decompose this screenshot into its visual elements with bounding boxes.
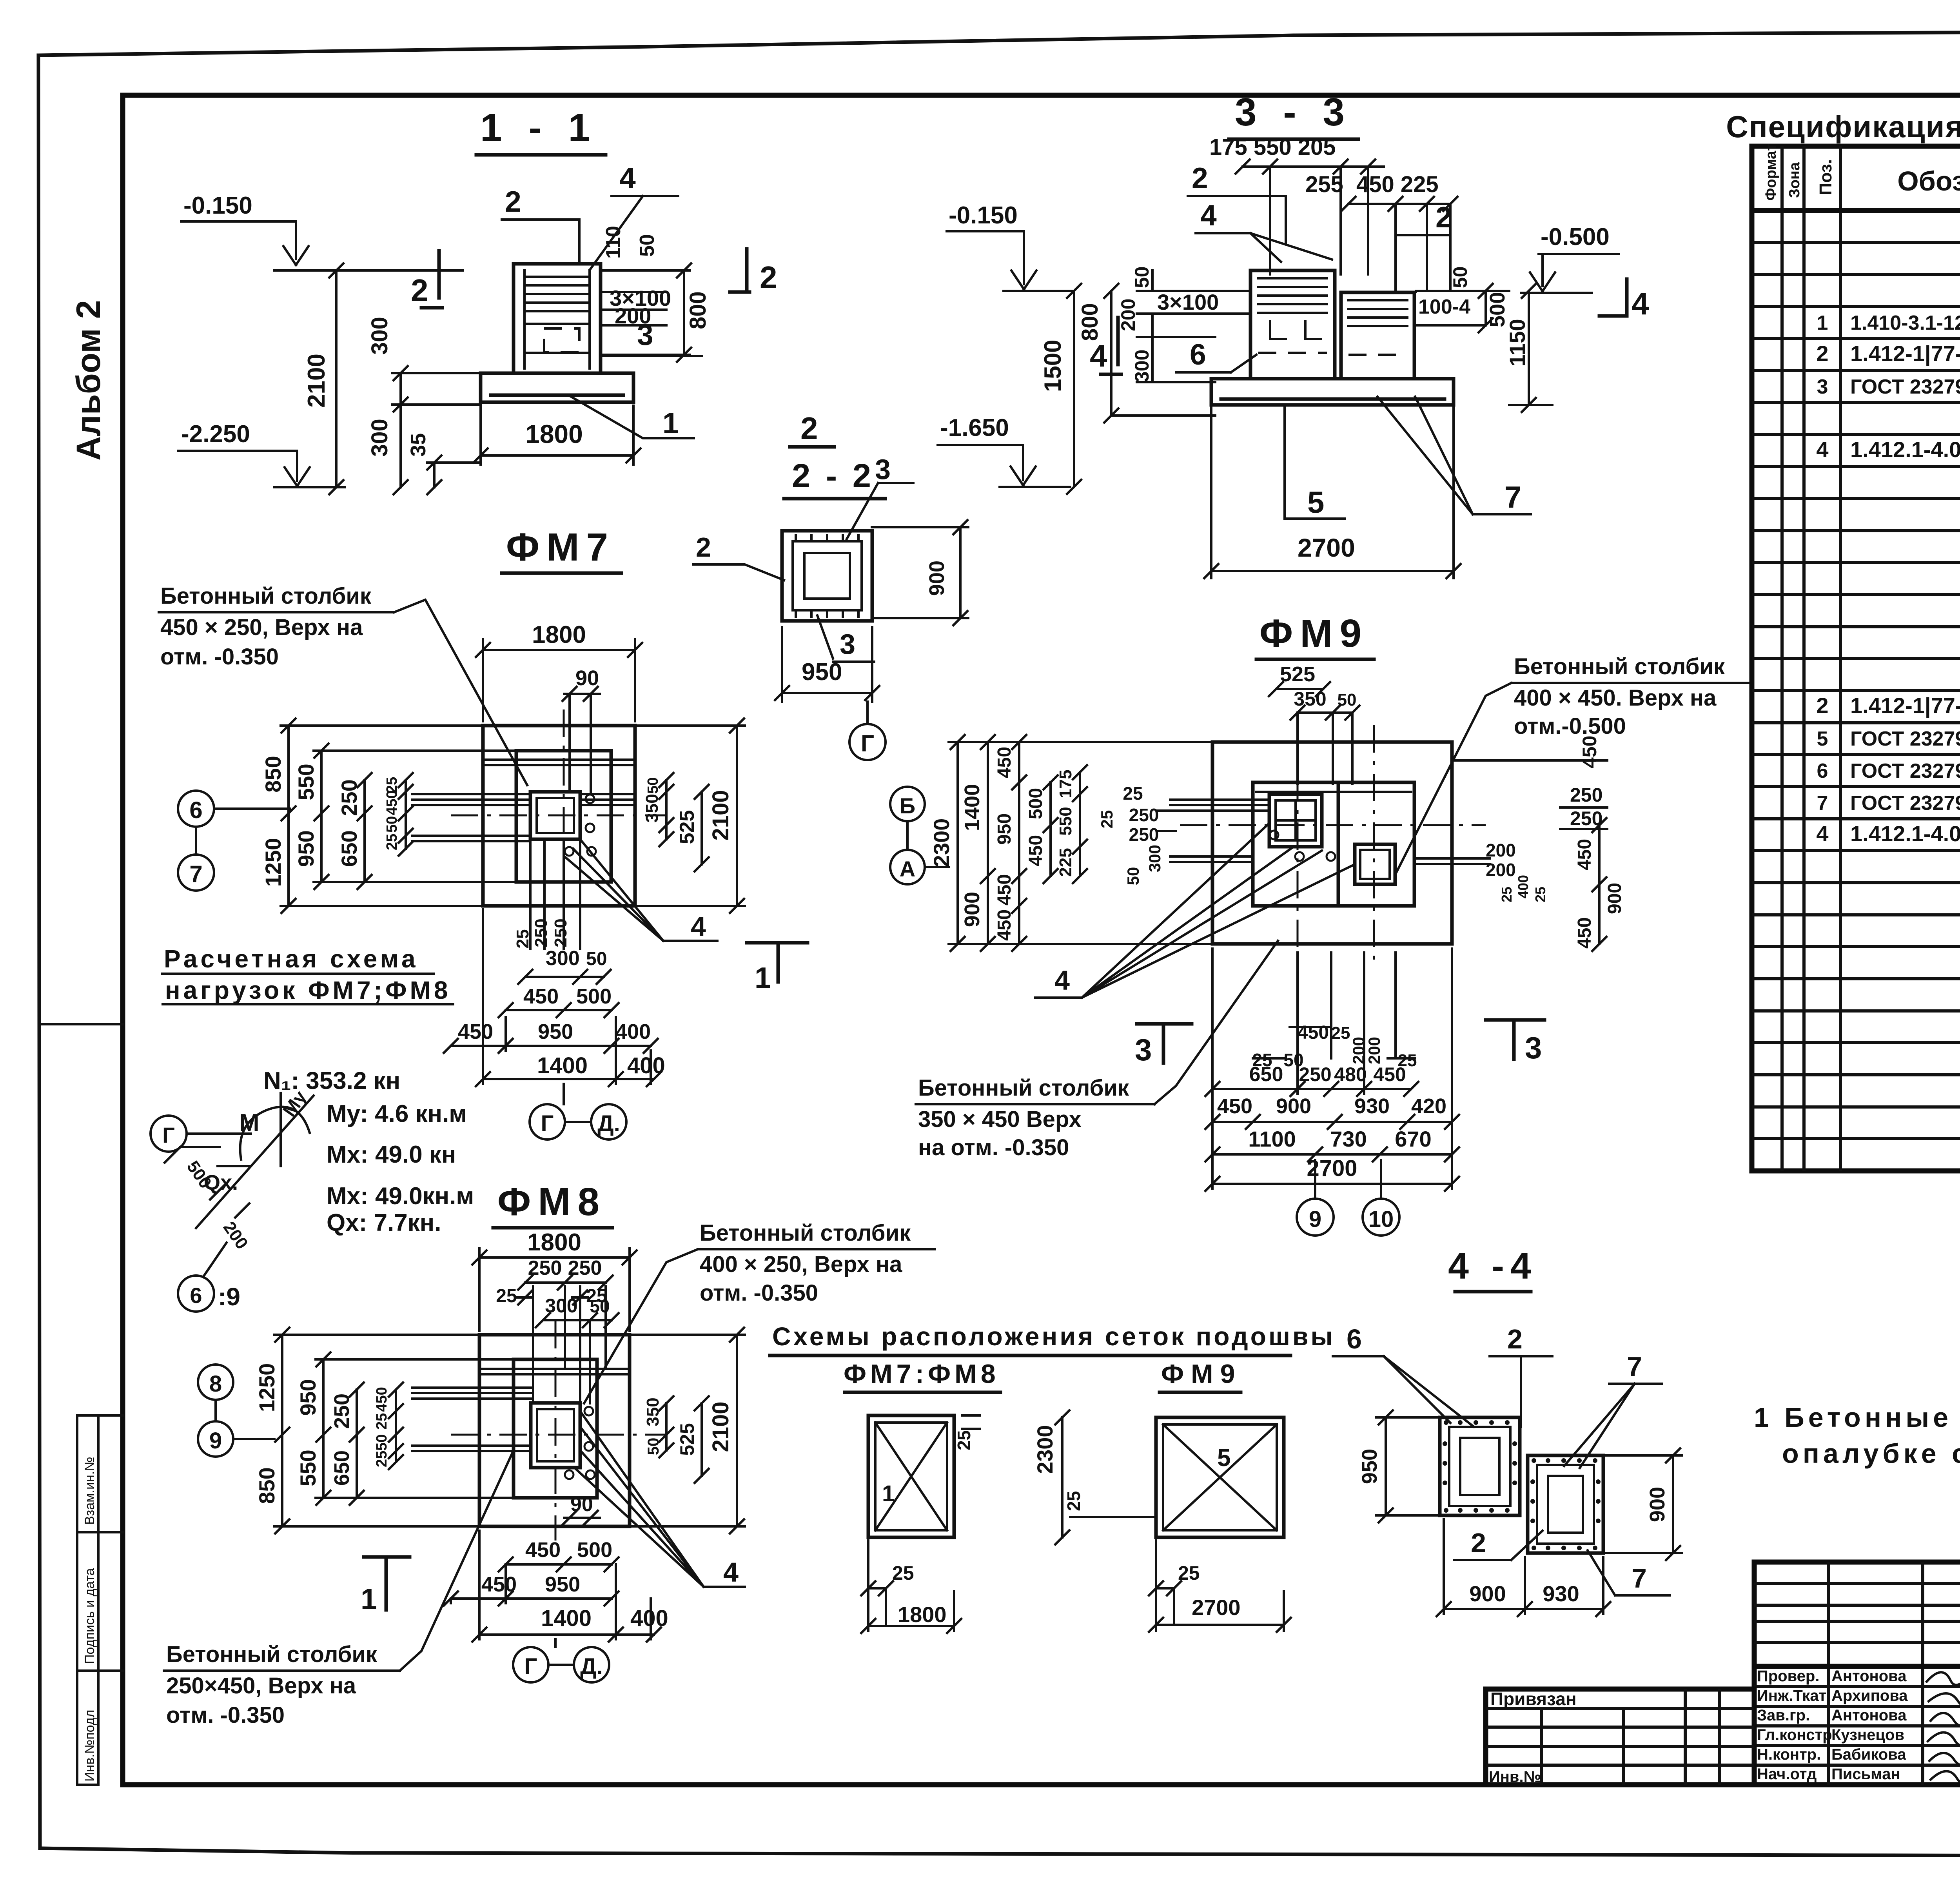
svg-text:1: 1 (361, 1582, 377, 1615)
svg-text:Провер.: Провер. (1757, 1668, 1819, 1685)
svg-text:175 550 205: 175 550 205 (1209, 134, 1336, 160)
svg-text:2 - 2: 2 - 2 (792, 457, 874, 495)
svg-text:525: 525 (676, 1423, 698, 1455)
svg-text:Антонова: Антонова (1831, 1668, 1907, 1685)
svg-text:50: 50 (586, 949, 607, 969)
svg-text:550: 550 (296, 1450, 320, 1486)
svg-text:2300: 2300 (1033, 1425, 1057, 1474)
svg-text:950: 950 (294, 830, 318, 867)
FM9 left dim 450 950 450 450 (994, 735, 1026, 951)
FM7 bottom small dims 25 250 250 25 (513, 839, 580, 949)
section 1-1 label 2 leader (502, 185, 579, 263)
FM9 plan outline (1212, 742, 1452, 944)
section 4-4 right pier (1528, 1455, 1603, 1553)
load scheme axis circle G (151, 1116, 251, 1152)
FM9 bottom dim 450 900 930 420 (1205, 1094, 1459, 1129)
FM9 axis circle 10 (1363, 1160, 1399, 1236)
FM9 bottom dim 650 250 480 450 (1205, 1063, 1418, 1096)
load scheme heading (162, 945, 453, 1004)
svg-text:Гл.констр: Гл.констр (1757, 1726, 1832, 1744)
svg-text:2: 2 (1192, 161, 1208, 194)
svg-text:Зав.гр.: Зав.гр. (1757, 1707, 1810, 1724)
svg-text:1.412.1-4.060: 1.412.1-4.060 (1850, 437, 1960, 462)
svg-text:450: 450 (458, 1020, 493, 1043)
svg-text:отм. -0.350: отм. -0.350 (166, 1702, 285, 1728)
svg-text:50: 50 (636, 234, 659, 257)
svg-text:ГОСТ 23279-85: ГОСТ 23279-85 (1850, 760, 1960, 782)
svg-text:-2.250: -2.250 (181, 421, 250, 448)
svg-text:4: 4 (619, 161, 636, 194)
section 4-4 bottom dim 900 930 (1437, 1519, 1610, 1616)
svg-text:2: 2 (760, 260, 777, 295)
svg-text:950: 950 (802, 659, 842, 686)
spec table rows (1816, 213, 1960, 942)
mesh layout subtitle FM7 FM8 (844, 1359, 1000, 1392)
svg-text:1.410-3.1-12: 1.410-3.1-12 (1850, 312, 1960, 334)
FM7 centre axis horizontal (451, 815, 666, 817)
svg-text:Схемы расположения сеток подош: Схемы расположения сеток подошвы (772, 1322, 1335, 1351)
svg-text:1800: 1800 (532, 621, 586, 648)
svg-text:Qх: 7.7кн.: Qх: 7.7кн. (327, 1209, 441, 1236)
svg-text:Расчетная схема: Расчетная схема (164, 945, 419, 973)
svg-text:1400: 1400 (537, 1053, 588, 1078)
svg-text:25: 25 (954, 1430, 974, 1450)
svg-text:Инж.Ткат: Инж.Ткат (1757, 1687, 1826, 1704)
svg-text:400: 400 (615, 1020, 651, 1043)
svg-text:4: 4 (1632, 286, 1649, 321)
svg-text:4: 4 (723, 1557, 739, 1588)
svg-text:Письман: Письман (1831, 1766, 1900, 1783)
FM7 top dim 1800 (476, 621, 642, 721)
svg-text:Обозначение: Обозначение (1897, 166, 1960, 196)
section 3-3 label 6 leader (1176, 338, 1256, 372)
svg-text:9: 9 (209, 1428, 222, 1453)
svg-text:6: 6 (190, 1283, 202, 1308)
section 1-1 level -2.250 (178, 421, 345, 487)
svg-text:на отм. -0.350: на отм. -0.350 (918, 1135, 1069, 1160)
FM7 centre axis vertical (563, 709, 565, 921)
svg-text:ФМ9: ФМ9 (1259, 611, 1368, 655)
svg-text:50: 50 (374, 1434, 390, 1451)
FM7 mesh bars right (580, 794, 635, 805)
FM8 mesh bars left (412, 1388, 531, 1451)
svg-text:25: 25 (374, 1451, 390, 1467)
svg-text:225: 225 (1056, 848, 1075, 876)
section 3-3 label 2 right leader (1396, 201, 1452, 290)
svg-text:800: 800 (1077, 303, 1103, 341)
mesh scheme 1 rect (868, 1415, 954, 1537)
svg-text:900: 900 (960, 892, 984, 927)
svg-text:250: 250 (1129, 824, 1159, 845)
svg-text:25: 25 (374, 1413, 390, 1430)
svg-text:Бетонный столбик: Бетонный столбик (160, 583, 372, 609)
FM8 axis circle 8 (198, 1365, 233, 1400)
svg-text:250: 250 (1129, 805, 1159, 825)
svg-text:6: 6 (189, 797, 202, 823)
svg-text:650: 650 (1249, 1063, 1283, 1086)
FM9 note betonny stolbik 400x450 (1396, 654, 1749, 874)
section 1-1 level -0.150 (181, 192, 463, 270)
svg-text:Г: Г (524, 1654, 537, 1679)
svg-text:950: 950 (296, 1379, 320, 1415)
svg-text:Бетонный столбик: Бетонный столбик (1514, 654, 1725, 679)
svg-text:1: 1 (1817, 312, 1828, 334)
FM7 left dim 550 950 (294, 744, 516, 889)
svg-text:7: 7 (1817, 792, 1828, 815)
section 3-3 level -0.500 (1521, 223, 1619, 293)
section 4-4 dim 950 (1358, 1410, 1440, 1522)
svg-text:Му: 4.6 кн.м: Му: 4.6 кн.м (327, 1100, 467, 1127)
svg-text:550: 550 (1056, 807, 1075, 835)
privyazan block (1486, 1689, 1754, 1785)
svg-text:1: 1 (882, 1481, 895, 1506)
FM9 left small dims 25 250 250 300 50 (1098, 783, 1176, 885)
svg-text:-0.150: -0.150 (949, 202, 1018, 229)
svg-text:7: 7 (1627, 1351, 1642, 1382)
FM7 pedestal top bars (485, 760, 633, 765)
svg-text:Спецификация элементов монолит: Спецификация элементов монолитной констр… (1726, 109, 1960, 144)
svg-text:Г: Г (541, 1111, 554, 1136)
FM7 left dim 250 650 (337, 773, 372, 889)
FM8 pedestal outline (514, 1359, 597, 1498)
section 3-3 level -0.150 (947, 202, 1074, 291)
svg-text:1800: 1800 (898, 1602, 947, 1627)
section 3-3 bottom dim 2700 (1204, 408, 1461, 578)
svg-text:1400: 1400 (541, 1606, 592, 1631)
FM7 left small dims 25 450 50 25 (384, 773, 413, 856)
svg-text:525: 525 (1280, 662, 1315, 686)
FM8 centre axes (451, 1321, 666, 1541)
FM8 leader 4 (574, 1411, 745, 1588)
svg-text:250: 250 (1570, 784, 1602, 806)
svg-text:Н.контр.: Н.контр. (1757, 1746, 1821, 1763)
FM7 right dim 525 (676, 785, 709, 871)
svg-text:Взам.ин.№: Взам.ин.№ (82, 1457, 97, 1525)
svg-text:Б: Б (900, 793, 915, 818)
svg-text:930: 930 (1354, 1094, 1390, 1118)
svg-text:950: 950 (538, 1020, 573, 1043)
svg-text:175: 175 (1056, 769, 1075, 798)
FM7 bottom dim 1400 400 (476, 909, 665, 1086)
svg-text:300: 300 (1145, 845, 1164, 872)
svg-text:1 Бетонные столбики выполняю: 1 Бетонные столбики выполняются в одной (1754, 1402, 1960, 1433)
svg-text:3: 3 (875, 454, 891, 485)
section 1-1 label 4 leader (590, 161, 678, 270)
mesh scheme 2 dims (1033, 1410, 1291, 1632)
FM7 anchor bolt dots (565, 795, 596, 856)
svg-text:1500: 1500 (1040, 340, 1066, 392)
svg-text:1100: 1100 (1248, 1127, 1296, 1151)
FM8 anchor plate (531, 1403, 580, 1468)
svg-text:50: 50 (645, 1438, 662, 1455)
svg-text:ФМ7:ФМ8: ФМ7:ФМ8 (844, 1359, 1000, 1389)
FM8 pedestal top bars (481, 1369, 628, 1374)
svg-text:ГОСТ 23279-85: ГОСТ 23279-85 (1850, 792, 1960, 815)
svg-text:900: 900 (1646, 1487, 1669, 1522)
svg-text:550: 550 (294, 764, 318, 800)
svg-text:500: 500 (577, 1538, 612, 1562)
svg-text:M: M (239, 1109, 260, 1136)
svg-text:850: 850 (261, 756, 285, 792)
svg-text:Инв.№подл: Инв.№подл (82, 1710, 97, 1782)
svg-text:4: 4 (1090, 338, 1107, 373)
FM8 anchor bolt dots (565, 1407, 595, 1479)
section 4-4 label 2 top leader (1490, 1324, 1552, 1427)
svg-text:25: 25 (892, 1562, 914, 1584)
section 4-4 label 6 leader (1333, 1324, 1474, 1427)
svg-text:1250: 1250 (261, 838, 285, 887)
FM8 left small dims 450 25 50 25 (374, 1383, 403, 1469)
section 3-3 top dims 255 450 225 (1305, 172, 1457, 290)
svg-text:1.412-1|77-В.3-020: 1.412-1|77-В.3-020 (1850, 693, 1960, 718)
svg-text:25: 25 (1532, 887, 1548, 902)
svg-text:350: 350 (642, 794, 662, 822)
svg-text:1250: 1250 (254, 1363, 279, 1412)
FM8 plan outline (479, 1335, 630, 1526)
svg-text:Альбом 2: Альбом 2 (70, 300, 107, 461)
svg-text:Бетонный столбик: Бетонный столбик (918, 1075, 1129, 1101)
FM8 right dim 2100 (630, 1328, 745, 1533)
svg-text:4: 4 (1200, 199, 1217, 232)
svg-text:2: 2 (411, 273, 428, 308)
FM9 mesh bars right (1414, 858, 1490, 864)
svg-text:2700: 2700 (1298, 533, 1355, 562)
svg-text:500: 500 (1025, 788, 1046, 819)
svg-text:25: 25 (513, 929, 532, 949)
svg-text:50: 50 (384, 816, 400, 833)
section 1-1 rebar leader 1 (568, 395, 694, 439)
svg-text:450: 450 (994, 747, 1015, 778)
svg-text:2700: 2700 (1192, 1595, 1241, 1620)
plan 2-2 axis circle G (849, 702, 886, 760)
svg-text:900: 900 (1276, 1094, 1311, 1118)
section 1-1 right dim stack 110 50 3x100 200 800 (602, 226, 711, 362)
FM7 axis circle 7 (178, 827, 214, 891)
plan 2-2 label 2 leader (693, 532, 784, 580)
title block signature labels (1757, 1668, 1908, 1783)
FM7 leader 4 (564, 839, 717, 942)
FM9 pedestal outline (1253, 782, 1414, 906)
section 3-3 footing (1211, 379, 1454, 405)
svg-text:4 -4: 4 -4 (1448, 1245, 1537, 1287)
svg-text::9: :9 (218, 1283, 240, 1311)
svg-text:2100: 2100 (303, 354, 330, 408)
svg-text:25: 25 (496, 1286, 517, 1306)
svg-text:Архипова: Архипова (1831, 1687, 1908, 1704)
svg-text:опалубке с фундаментами.: опалубке с фундаментами. (1782, 1438, 1960, 1469)
section 3-3 dim 800 (1077, 284, 1215, 423)
FM9 right dims 200 200 25 400 25 (1486, 840, 1548, 902)
FM9 top dim 350 50 (1290, 688, 1359, 784)
FM7 right dim 2100 (635, 719, 745, 913)
FM7 axis circle 6 (178, 791, 290, 827)
title block signatures squiggles (1927, 1666, 1960, 1784)
svg-text:1800: 1800 (525, 419, 583, 448)
FM7 anchor plate (530, 792, 580, 839)
mesh layout subtitle FM9 (1160, 1359, 1242, 1392)
svg-text:420: 420 (1411, 1094, 1446, 1118)
left margin stamp boxes (77, 1415, 123, 1785)
section 4-4 dim 900 right (1603, 1448, 1682, 1560)
FM8 bottom dim 450 500 (499, 1538, 619, 1571)
FM8 bottom dim 450 950 (444, 1573, 619, 1606)
FM9 bottom dim 2700 (1205, 949, 1459, 1191)
FM9 axis circle B (890, 787, 925, 821)
general note (1754, 1402, 1960, 1469)
svg-text:300: 300 (1131, 350, 1153, 382)
svg-text:2: 2 (1436, 201, 1452, 234)
left edge fold tick (39, 1023, 123, 1025)
svg-text:300: 300 (367, 419, 392, 457)
svg-text:200: 200 (615, 303, 651, 328)
svg-text:5: 5 (1217, 1444, 1230, 1472)
svg-text:1800: 1800 (527, 1229, 581, 1256)
svg-text:450: 450 (1025, 835, 1046, 866)
svg-text:1400: 1400 (960, 784, 984, 831)
FM9 left dim 1400 900 (960, 735, 995, 951)
svg-text:Мх: 49.0кн.м: Мх: 49.0кн.м (327, 1183, 474, 1210)
section 1-1 cut mark 2 left (411, 251, 442, 308)
FM8 cut mark 1 (361, 1557, 410, 1615)
svg-text:3 - 3: 3 - 3 (1235, 90, 1352, 134)
FM8 left dim 950 550 (296, 1352, 514, 1505)
svg-text:250×450, Верх на: 250×450, Верх на (166, 1673, 356, 1698)
svg-text:800: 800 (685, 291, 711, 329)
svg-text:1: 1 (662, 406, 679, 439)
svg-text:Кузнецов: Кузнецов (1831, 1726, 1904, 1744)
svg-text:730: 730 (1330, 1127, 1367, 1151)
svg-text:400: 400 (1515, 875, 1531, 898)
svg-text:450: 450 (1373, 1063, 1406, 1085)
svg-text:50: 50 (1449, 266, 1471, 288)
section 3-3 label 2 left leader (1188, 161, 1286, 243)
FM9 left dim 550 175 225 (1056, 765, 1087, 883)
FM7 bottom dim 450 950 400 (444, 1020, 658, 1053)
section 3-3 column A (1250, 270, 1335, 379)
plan 2-2 dim 950 (775, 627, 879, 702)
FM9 pedestal inner bars top (1256, 792, 1411, 906)
svg-text:100-4: 100-4 (1418, 296, 1470, 318)
svg-text:2300: 2300 (929, 818, 954, 867)
sheet outer bottom edge (40, 1848, 1960, 1856)
plan 2-2 label 3 top leader (847, 454, 913, 539)
svg-text:-1.650: -1.650 (940, 414, 1009, 441)
FM7 bottom dim 300 50 (518, 947, 611, 984)
svg-text:6: 6 (1190, 338, 1206, 371)
section 1-1 dim 2100 (303, 263, 343, 494)
spec table header texts (1763, 143, 1960, 201)
section 1-1 cut mark 2 bottom right (790, 411, 834, 447)
FM8 axis circle 9 (198, 1400, 274, 1457)
svg-text:-0.500: -0.500 (1541, 223, 1610, 250)
section 3-3 cut mark 4 left (1090, 318, 1121, 374)
svg-text:90: 90 (575, 666, 599, 690)
section 4-4 label 7 top leader (1564, 1351, 1662, 1468)
svg-text:25: 25 (384, 834, 400, 850)
svg-text:2: 2 (1507, 1324, 1523, 1354)
svg-text:отм. -0.350: отм. -0.350 (700, 1280, 818, 1306)
FM9 leader 4 (1035, 823, 1355, 998)
svg-text:50: 50 (1131, 266, 1153, 288)
svg-text:25: 25 (1331, 1023, 1350, 1043)
svg-text:350 × 450 Верх: 350 × 450 Верх (918, 1107, 1082, 1132)
svg-text:ФМ8: ФМ8 (497, 1180, 606, 1224)
FM9 left dim 500 450 (1025, 775, 1058, 883)
plan 2-2 label 3 bottom leader (817, 615, 874, 662)
svg-text:400 × 450. Верх на: 400 × 450. Верх на (1514, 685, 1717, 711)
FM7 left dim 850 1250 (261, 719, 483, 913)
sheet outer left edge (38, 55, 40, 1847)
svg-text:4: 4 (691, 911, 706, 942)
FM9 anchor bolt dots (1270, 831, 1335, 861)
svg-text:450 × 250, Верх на: 450 × 250, Верх на (160, 615, 363, 640)
svg-text:450: 450 (1298, 1022, 1329, 1043)
svg-text:450 225: 450 225 (1356, 172, 1439, 197)
svg-text:670: 670 (1395, 1127, 1431, 1151)
FM9 axis circle 9 (1297, 1160, 1334, 1236)
svg-text:4: 4 (1816, 821, 1828, 846)
mesh layout heading (770, 1322, 1335, 1355)
spec table fraction rows (1817, 308, 1960, 820)
section 1-1 footing (481, 373, 633, 402)
svg-text:900: 900 (925, 561, 949, 596)
FM9 cut mark 3 left (1135, 1024, 1192, 1067)
svg-text:4: 4 (1054, 965, 1070, 996)
svg-text:900: 900 (1469, 1581, 1506, 1606)
svg-text:2: 2 (1471, 1528, 1486, 1558)
section 3-3 dim 1500 (1040, 284, 1081, 494)
svg-text:950: 950 (545, 1573, 580, 1596)
FM9 left dim 2300 (929, 735, 1212, 951)
svg-text:2: 2 (1816, 341, 1828, 366)
load scheme diagram (165, 1087, 314, 1253)
section 1-1 column (514, 264, 601, 373)
svg-text:250: 250 (330, 1394, 354, 1429)
FM9 bottom dim 1100 730 670 (1205, 1127, 1459, 1161)
svg-text:Д.: Д. (580, 1654, 603, 1679)
FM8 note betonny stolbik 400x250 top right (584, 1220, 935, 1403)
FM7 right dim 350 50 (642, 773, 673, 846)
svg-text:450: 450 (994, 874, 1015, 905)
section 1-1 label 3 leader (601, 318, 702, 356)
svg-text:Мх: 49.0 кн: Мх: 49.0 кн (327, 1141, 456, 1168)
svg-text:Нач.отд: Нач.отд (1757, 1766, 1817, 1783)
svg-text:Бетонный столбик: Бетонный столбик (700, 1220, 911, 1246)
svg-text:ФМ9: ФМ9 (1161, 1359, 1242, 1389)
svg-text:930: 930 (1543, 1581, 1579, 1606)
svg-text:350: 350 (643, 1397, 662, 1426)
svg-text:N₁: 353.2 кн: N₁: 353.2 кн (263, 1067, 400, 1094)
svg-text:1: 1 (755, 961, 771, 994)
FM7 mesh bars left (412, 794, 530, 841)
svg-text:50: 50 (645, 777, 661, 794)
svg-text:900: 900 (1604, 883, 1625, 914)
FM8 top dims 25 25 (496, 1286, 607, 1306)
svg-text:Г: Г (861, 730, 874, 757)
FM9 top dim 525 (1269, 662, 1330, 696)
svg-text:10: 10 (1368, 1207, 1394, 1232)
svg-text:450: 450 (525, 1538, 561, 1562)
svg-text:7: 7 (1504, 480, 1521, 514)
FM8 note betonny stolbik 250x450 (164, 1450, 514, 1728)
FM8 top dim 1800 (472, 1229, 637, 1331)
plan 2-2 square (782, 531, 872, 621)
FM8 left dim 1250 850 (254, 1328, 479, 1533)
svg-text:25: 25 (1499, 887, 1515, 902)
load scheme axis circle 6 and 9 (178, 1243, 240, 1312)
title block frame (1754, 1562, 1960, 1785)
FM7 pedestal outline (516, 751, 611, 882)
